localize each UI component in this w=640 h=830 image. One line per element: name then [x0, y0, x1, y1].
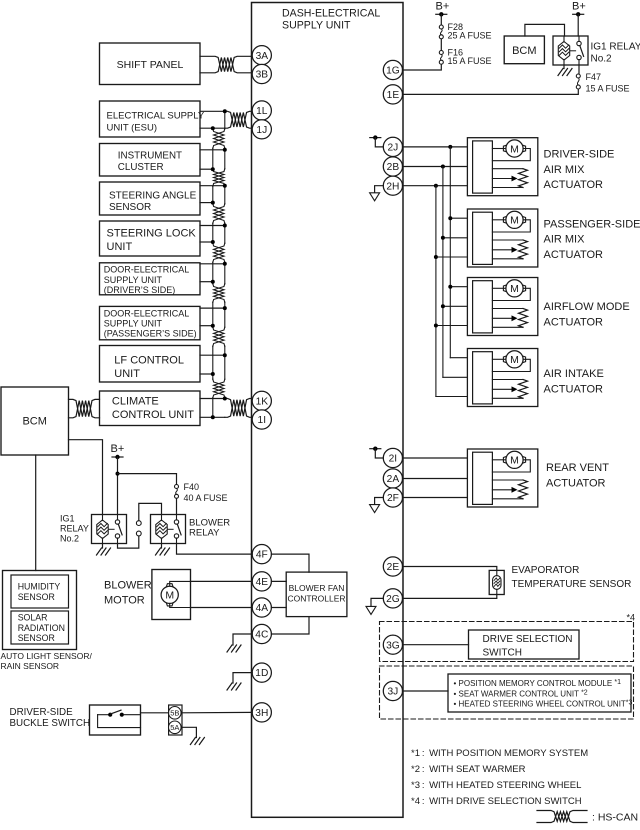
wire pin 2E to evaporator sensor	[403, 567, 497, 571]
label IG1 RELAY No.2 (top)	[591, 42, 640, 65]
pin 2H	[383, 176, 402, 195]
wire IG1 relay switch to inline connector	[118, 536, 139, 548]
ground from pin 1D	[227, 673, 252, 690]
svg-text:CLIMATE: CLIMATE	[112, 396, 159, 408]
steering angle sensor box	[100, 182, 201, 215]
wire BCM to IG1 relay No.2 coil	[69, 440, 103, 515]
svg-text:MOTOR: MOTOR	[104, 594, 145, 606]
wire twisted pair shift panel to 3A/3B	[200, 56, 252, 73]
svg-text:LF CONTROL: LF CONTROL	[114, 355, 184, 367]
HS-CAN twisted pair twist 3	[213, 204, 225, 224]
svg-text:1D: 1D	[255, 668, 268, 679]
svg-text:RAIN SENSOR: RAIN SENSOR	[1, 661, 60, 671]
svg-text:BLOWER FAN: BLOWER FAN	[289, 583, 345, 593]
wire tap instrument cluster CAN-H	[200, 148, 227, 152]
wire tap door-electrical supply unit driver's side CAN-H	[200, 262, 227, 266]
BCM box (left)	[1, 387, 69, 455]
junction dots climate taps	[211, 397, 227, 420]
node B+ battery feed (top)	[436, 1, 450, 17]
pin 3G	[383, 635, 402, 654]
pin 3H	[252, 703, 271, 722]
wire tap instrument cluster CAN-L	[200, 167, 215, 171]
wire twisted pair ESU to 1L/1J	[200, 111, 252, 128]
solar radiation sensor box	[11, 611, 69, 644]
svg-text:*3 : WITH HEATED STEERING WHE: *3 : WITH HEATED STEERING WHEEL	[411, 780, 581, 791]
wire pin 3J to module list box	[403, 690, 449, 692]
wire pin 2B to actuator bus	[403, 166, 468, 168]
ground below IG1 relay No.2 coil	[97, 544, 111, 556]
label passenger-side air mix actuator	[544, 218, 640, 261]
module list box	[448, 674, 633, 712]
svg-text:ACTUATOR: ACTUATOR	[546, 477, 606, 489]
svg-text:ACTUATOR: ACTUATOR	[544, 317, 604, 329]
svg-text:BCM: BCM	[22, 416, 46, 428]
wire pin 2A to rear vent actuator	[403, 478, 468, 480]
svg-text:3B: 3B	[256, 70, 269, 81]
svg-text:2F: 2F	[387, 493, 399, 504]
svg-text:AIR MIX: AIR MIX	[544, 234, 586, 246]
shield arrow below 2G	[366, 598, 383, 614]
shift panel box	[100, 43, 201, 85]
actuator feeder wire 1 (from 2J)	[448, 145, 452, 358]
pin 4F	[252, 545, 271, 564]
wire BCM to IG1 relay coil	[525, 24, 565, 36]
driver-side buckle switch SW1	[90, 705, 141, 735]
pin 1L	[252, 101, 271, 120]
svg-text:1G: 1G	[386, 66, 400, 77]
svg-text:1L: 1L	[256, 106, 268, 117]
svg-text:1E: 1E	[387, 90, 400, 101]
svg-text:IG1: IG1	[60, 514, 75, 524]
svg-text:5B: 5B	[170, 709, 179, 718]
svg-text:EVAPORATOR: EVAPORATOR	[512, 565, 580, 576]
svg-text:(PASSENGER’S SIDE): (PASSENGER’S SIDE)	[104, 329, 197, 339]
door-electrical supply unit (passenger's side) box	[100, 306, 201, 339]
svg-text:DOOR-ELECTRICAL: DOOR-ELECTRICAL	[104, 308, 190, 318]
wire pin 2H to actuator bus	[403, 185, 468, 187]
humidity sensor box	[11, 575, 69, 608]
ground below blower relay coil	[156, 544, 170, 556]
wire F16 to pin 1G	[403, 65, 442, 70]
svg-text:ACTUATOR: ACTUATOR	[544, 179, 604, 191]
actuator air intake	[467, 349, 537, 407]
svg-text:25 A FUSE: 25 A FUSE	[448, 31, 492, 41]
svg-text:REAR VENT: REAR VENT	[546, 462, 609, 474]
svg-text:DASH-ELECTRICAL: DASH-ELECTRICAL	[282, 8, 380, 20]
svg-text:No.2: No.2	[591, 54, 613, 65]
svg-text:UNIT (ESU): UNIT (ESU)	[107, 122, 158, 133]
svg-text:F47: F47	[586, 72, 602, 82]
dashed option box (control modules)	[380, 666, 634, 719]
blower motor box	[152, 570, 191, 620]
label BLOWER MOTOR	[104, 579, 152, 606]
wire B+ to fuse F28	[440, 14, 442, 24]
wire pin 3G to drive selection switch	[403, 644, 469, 646]
evaporator temperature sensor	[489, 570, 504, 594]
label auto light sensor / rain sensor	[1, 651, 93, 671]
dashed option box (drive selection switch)	[380, 622, 634, 662]
svg-text:BUCKLE SWITCH: BUCKLE SWITCH	[10, 718, 91, 729]
wire stubs to actuator 4	[436, 358, 468, 397]
svg-text:• POSITION MEMORY CONTROL MODU: • POSITION MEMORY CONTROL MODULE *1	[454, 679, 622, 688]
wire F40 to blower relay switch	[176, 499, 178, 515]
junction dots ESU taps	[211, 109, 227, 130]
label rear vent actuator	[546, 462, 609, 489]
pin 1E	[383, 85, 402, 104]
svg-text:*2 : WITH SEAT WARMER: *2 : WITH SEAT WARMER	[411, 764, 526, 775]
wire tap LF control unit CAN-L	[200, 372, 215, 376]
svg-text:ACTUATOR: ACTUATOR	[544, 383, 604, 395]
wire pin 4E to blower fan controller	[271, 580, 286, 582]
humidity/solar sensor outer box	[3, 571, 77, 650]
svg-text:F40: F40	[184, 482, 200, 492]
wire pin 4F to blower fan controller	[271, 554, 309, 572]
svg-text:B+: B+	[436, 1, 450, 13]
HS-CAN twisted pair twist 2	[213, 169, 225, 187]
svg-text:SWITCH: SWITCH	[483, 648, 522, 659]
wire blower motor to pin 4A	[191, 607, 253, 609]
svg-text:No.2: No.2	[60, 534, 79, 544]
pin 1I	[252, 410, 271, 429]
wire IG1 relay switch to fuse F47	[578, 65, 580, 74]
wire blower fan controller to pin 4C	[271, 617, 309, 634]
svg-text:(DRIVER’S SIDE): (DRIVER’S SIDE)	[104, 285, 176, 295]
ground from pin 4C	[227, 634, 252, 652]
fuse F40 40A	[175, 482, 228, 503]
svg-text:4E: 4E	[256, 577, 269, 588]
LF control unit box	[100, 346, 201, 383]
svg-text:AUTO LIGHT SENSOR/: AUTO LIGHT SENSOR/	[1, 651, 93, 661]
wire blower relay switch to pin 4F	[177, 544, 253, 555]
fuse F47 15A	[576, 72, 629, 94]
svg-text:SENSOR: SENSOR	[109, 202, 151, 213]
svg-text:BLOWER: BLOWER	[104, 579, 152, 591]
svg-text:SENSOR: SENSOR	[18, 592, 55, 602]
svg-text:M: M	[165, 590, 174, 602]
wire tap steering lock unit CAN-L	[200, 240, 215, 244]
svg-text:M: M	[510, 143, 519, 155]
junction B+ branch	[116, 472, 120, 476]
wire tap steering angle sensor CAN-H	[200, 184, 227, 188]
svg-text:B+: B+	[111, 443, 125, 455]
HS-CAN twisted pair twist 6	[213, 327, 225, 347]
label airflow mode actuator	[544, 301, 630, 328]
pin 1K	[252, 391, 271, 410]
label evaporator temperature sensor	[512, 565, 632, 590]
label driver-side buckle switch	[10, 707, 91, 729]
electrical supply unit (ESU) box	[100, 101, 205, 137]
door-electrical supply unit (driver's side) box	[100, 263, 201, 295]
shield arrow below 2H	[370, 186, 384, 201]
wire B+ down to IG1 relay switch	[117, 457, 119, 515]
svg-text:ELECTRICAL SUPPLY: ELECTRICAL SUPPLY	[107, 111, 205, 122]
svg-text:SOLAR: SOLAR	[18, 613, 48, 623]
wire stubs to actuator 2	[434, 216, 468, 259]
svg-text:M: M	[510, 455, 519, 467]
pin 2E	[383, 557, 402, 576]
legend HS-CAN twisted pair symbol	[537, 811, 587, 823]
label driver-side air mix actuator	[544, 149, 615, 192]
wire inline connector to blower relay coil	[139, 503, 162, 520]
actuator driver-side air mix	[467, 138, 537, 196]
HS-CAN twisted pair twist 1	[213, 129, 225, 149]
HS-CAN twisted pair twist 4	[213, 243, 225, 263]
wire pin 4A to blower fan controller	[271, 607, 286, 609]
svg-text:SHIFT PANEL: SHIFT PANEL	[117, 59, 184, 71]
svg-text:2A: 2A	[387, 474, 400, 485]
pin 2G	[383, 589, 402, 608]
pin 3A	[252, 46, 271, 65]
svg-text:2H: 2H	[386, 181, 399, 192]
wire twisted pair climate control unit to 1K/1I	[200, 399, 252, 418]
actuator rear vent	[467, 449, 537, 507]
svg-text:IG1 RELAY: IG1 RELAY	[591, 42, 640, 53]
wire tap door-electrical supply unit passenger's side CAN-L	[200, 324, 215, 328]
label IG1 RELAY No.2 (bottom)	[60, 514, 89, 544]
drive selection switch box	[469, 630, 580, 659]
svg-text:RELAY: RELAY	[60, 524, 89, 534]
svg-text:1K: 1K	[256, 397, 269, 408]
svg-text:RADIATION: RADIATION	[18, 623, 65, 633]
BCM box (top right)	[504, 36, 544, 64]
svg-text:4C: 4C	[255, 630, 268, 641]
pin 1G	[383, 60, 402, 79]
svg-text:BCM: BCM	[512, 45, 536, 57]
pin 3B	[252, 64, 271, 83]
svg-text:SUPPLY UNIT: SUPPLY UNIT	[104, 275, 163, 285]
svg-text:M: M	[510, 354, 519, 366]
wire pin 2F to rear vent actuator	[403, 497, 468, 499]
svg-text:4A: 4A	[256, 603, 269, 614]
wire tap steering angle sensor CAN-L	[200, 201, 215, 205]
pin 1D	[252, 663, 271, 682]
svg-text:DRIVER-SIDE: DRIVER-SIDE	[10, 707, 74, 718]
label BLOWER RELAY	[189, 518, 230, 539]
pin 2B	[383, 157, 402, 176]
climate control unit box	[100, 391, 201, 426]
svg-text:1J: 1J	[256, 125, 267, 136]
svg-text:STEERING LOCK: STEERING LOCK	[107, 228, 197, 240]
svg-text:AIRFLOW MODE: AIRFLOW MODE	[544, 301, 630, 313]
pin 4A	[252, 598, 271, 617]
svg-text:UNIT: UNIT	[107, 241, 133, 253]
pin 4E	[252, 572, 271, 591]
svg-text:CONTROLLER: CONTROLLER	[287, 594, 345, 604]
svg-text:CONTROL UNIT: CONTROL UNIT	[112, 409, 194, 421]
relay U3 BLOWER RELAY	[151, 515, 186, 544]
svg-text:2G: 2G	[386, 594, 400, 605]
fuse F16 15A	[439, 47, 491, 66]
pin 3J	[383, 681, 402, 700]
ground below IG1 relay coil (top)	[558, 65, 572, 76]
wire tap LF control unit CAN-H	[200, 353, 227, 357]
svg-text:B+: B+	[572, 1, 586, 13]
svg-text:TEMPERATURE SENSOR: TEMPERATURE SENSOR	[512, 579, 632, 590]
wire F47 to pin 1E	[403, 89, 579, 94]
wire tap door-electrical supply unit driver's side CAN-L	[200, 280, 215, 284]
wire buckle switch 5B to pin 3H	[141, 711, 253, 713]
svg-text:HUMIDITY: HUMIDITY	[18, 582, 61, 592]
actuator feeder wire 2 (from 2B)	[441, 165, 445, 378]
svg-text:ACTUATOR: ACTUATOR	[544, 249, 604, 261]
svg-text:PASSENGER-SIDE: PASSENGER-SIDE	[544, 218, 640, 230]
svg-text:3J: 3J	[388, 687, 399, 698]
pin 4C	[252, 624, 271, 643]
svg-text:SUPPLY UNIT: SUPPLY UNIT	[282, 19, 351, 31]
svg-text:DRIVE SELECTION: DRIVE SELECTION	[483, 634, 573, 645]
node B+ battery feed (bottom)	[111, 443, 125, 459]
wire blower motor to pin 4E	[191, 580, 253, 582]
label air intake actuator	[544, 368, 604, 395]
power tick at 2J	[370, 135, 384, 146]
svg-text:2J: 2J	[388, 143, 399, 154]
inline connector	[136, 521, 141, 536]
svg-text:1I: 1I	[258, 415, 267, 426]
actuator passenger-side air mix	[467, 209, 537, 267]
wire BCM to sensor box	[35, 455, 37, 571]
svg-text:15 A FUSE: 15 A FUSE	[448, 56, 492, 66]
shield arrow below 2F	[370, 498, 384, 513]
svg-text:15 A FUSE: 15 A FUSE	[586, 84, 630, 94]
HS-CAN bus vertical wires	[213, 111, 225, 417]
svg-text:DRIVER-SIDE: DRIVER-SIDE	[544, 149, 615, 161]
svg-text:3H: 3H	[255, 708, 268, 719]
svg-text:UNIT: UNIT	[114, 368, 140, 380]
svg-text:2I: 2I	[389, 454, 398, 465]
pin 2I	[383, 448, 402, 467]
pin 1J	[252, 120, 271, 139]
svg-text:STEERING ANGLE: STEERING ANGLE	[109, 190, 197, 201]
fuse F28 25A	[439, 22, 491, 41]
wire pin 2I to rear vent actuator	[403, 457, 468, 459]
svg-text:AIR MIX: AIR MIX	[544, 164, 586, 176]
wire tap door-electrical supply unit passenger's side CAN-H	[200, 306, 227, 310]
svg-text:5A: 5A	[170, 723, 179, 732]
svg-text:INSTRUMENT: INSTRUMENT	[118, 150, 182, 161]
svg-text:2B: 2B	[387, 162, 400, 173]
svg-text:2E: 2E	[387, 562, 400, 573]
wire 5A to ground	[181, 727, 204, 744]
svg-text:*4 : WITH DRIVE SELECTION SWI: *4 : WITH DRIVE SELECTION SWITCH	[411, 796, 582, 807]
wire F28 to F16	[440, 39, 442, 50]
svg-text:*1 : WITH POSITION MEMORY SYS: *1 : WITH POSITION MEMORY SYSTEM	[411, 748, 588, 759]
wire branch to fuse F40	[118, 474, 177, 485]
actuator airflow mode	[467, 278, 537, 336]
svg-text:M: M	[510, 283, 519, 295]
wire twisted pair BCM to climate control unit	[69, 399, 100, 417]
wire pin 2J to actuator bus	[403, 146, 468, 148]
svg-text:AIR INTAKE: AIR INTAKE	[544, 368, 604, 380]
power tick at 2I	[370, 447, 384, 459]
svg-text:SUPPLY UNIT: SUPPLY UNIT	[104, 319, 163, 329]
actuator feeder wire 3 (from 2H)	[434, 184, 438, 397]
svg-text:4F: 4F	[256, 550, 268, 561]
steering lock unit box	[100, 221, 201, 256]
svg-text:DOOR-ELECTRICAL: DOOR-ELECTRICAL	[104, 265, 190, 275]
svg-text:3A: 3A	[256, 51, 269, 62]
svg-text:: HS-CAN: : HS-CAN	[592, 812, 638, 824]
HS-CAN twisted pair twist 7	[213, 379, 225, 398]
svg-text:• HEATED STEERING WHEEL CONTRO: • HEATED STEERING WHEEL CONTROL UNIT*3	[454, 699, 633, 708]
wire evaporator sensor to pin 2G	[403, 595, 497, 599]
pin 2F	[383, 488, 402, 507]
relay U2 IG1 RELAY No.2 (bottom)	[92, 515, 127, 544]
svg-text:40 A FUSE: 40 A FUSE	[184, 493, 228, 503]
pin 2J	[383, 137, 402, 156]
svg-text:• SEAT WARMER CONTROL UNIT *2: • SEAT WARMER CONTROL UNIT *2	[454, 689, 588, 698]
node B+ battery feed (relay)	[572, 1, 586, 17]
svg-text:SENSOR: SENSOR	[18, 633, 55, 643]
wire B+ to IG1 relay switch	[577, 14, 579, 36]
HS-CAN twisted pair twist 5	[213, 284, 225, 303]
svg-text:3G: 3G	[386, 640, 400, 651]
connector 5B/5A	[169, 705, 183, 735]
pin 2A	[383, 469, 402, 488]
svg-text:CLUSTER: CLUSTER	[118, 162, 164, 173]
instrument cluster box	[100, 144, 201, 177]
wire stubs to actuator 3	[434, 285, 468, 328]
relay U1 IG1 RELAY No.2 (top)	[553, 36, 588, 65]
svg-text:RELAY: RELAY	[189, 528, 220, 539]
blower fan controller box	[286, 572, 347, 617]
wire tap steering lock unit CAN-H	[200, 224, 227, 228]
svg-text:M: M	[510, 215, 519, 227]
dash-electrical supply unit box	[252, 3, 404, 818]
